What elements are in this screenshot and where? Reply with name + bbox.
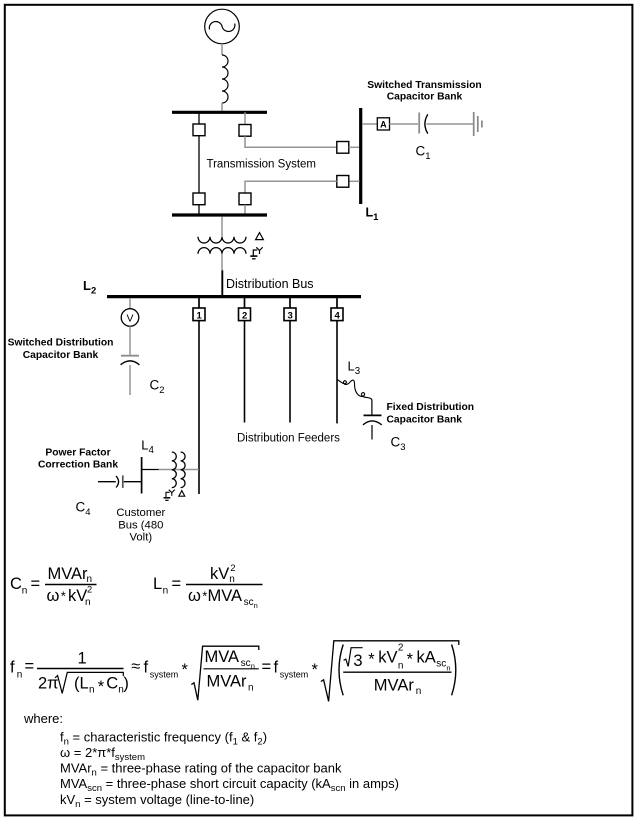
svg-text:kA: kA [417, 649, 436, 667]
delta symbol (T2) [179, 491, 185, 497]
svg-text:L: L [153, 575, 162, 593]
capacitor C4 [116, 475, 123, 488]
feeder line 1 [198, 321, 200, 494]
delta symbol [256, 233, 264, 240]
svg-text:n: n [416, 686, 422, 697]
label Switched Transmission Capacitor Bank [367, 80, 481, 102]
svg-text:n: n [85, 597, 91, 608]
svg-text:Switched Distribution: Switched Distribution [8, 337, 114, 348]
svg-text:*: * [312, 661, 319, 679]
svg-text:Capacitor Bank: Capacitor Bank [387, 91, 463, 102]
wye symbol with ground [250, 247, 262, 258]
wire C1 to ground [427, 123, 474, 125]
transmission bus (top) [172, 111, 267, 114]
svg-text:*: * [407, 651, 414, 669]
wire right bottom stub [244, 205, 246, 215]
svg-text:C: C [10, 575, 22, 593]
wire through transformer T2 to feeder 1 [159, 469, 199, 471]
feeder breaker 2 [239, 298, 251, 321]
wire inductor to transmission bus [221, 103, 223, 111]
svg-text:1: 1 [197, 310, 203, 321]
ground (rotated) [474, 112, 482, 136]
breaker (left top) [193, 124, 205, 136]
svg-text:n: n [17, 670, 23, 681]
svg-text:n: n [398, 660, 404, 671]
svg-text:2: 2 [87, 585, 92, 595]
svg-text:*: * [368, 651, 375, 669]
svg-text:*: * [182, 661, 189, 679]
svg-text:sc: sc [244, 597, 254, 608]
wire V to capacitor C2 [129, 326, 131, 354]
svg-text:MVA: MVA [208, 587, 243, 605]
breaker (L1 upper) [337, 142, 349, 154]
svg-text:MVAr: MVAr [207, 672, 248, 690]
svg-text:n: n [89, 685, 95, 696]
breaker (left bottom) [193, 193, 205, 205]
svg-text:C: C [106, 675, 118, 693]
svg-text:n: n [163, 586, 169, 597]
wye symbol with ground (T2) [164, 490, 175, 501]
breaker (right bottom) [239, 193, 251, 205]
svg-text:Transmission System: Transmission System [207, 159, 317, 171]
svg-text:=: = [262, 658, 272, 676]
transformer T2 secondary winding [181, 452, 186, 488]
label Power Factor Correction Bank [38, 448, 118, 471]
wire riser to distribution bus [221, 270, 223, 295]
svg-text:A: A [380, 119, 387, 129]
inductor (generator source impedance) [222, 55, 228, 103]
wire L4 to transformer T2 [142, 469, 159, 471]
wire to L1 upper [245, 136, 337, 147]
svg-text:kV: kV [378, 649, 397, 667]
svg-text:Correction Bank: Correction Bank [38, 459, 118, 470]
svg-text:ω: ω [188, 587, 201, 605]
svg-text:Customer: Customer [116, 507, 165, 519]
wire L3 to C3 [371, 400, 373, 415]
wire L1 to A box [362, 123, 377, 125]
svg-text:n: n [251, 661, 255, 670]
feeder line 4 [336, 321, 338, 424]
wire bus to switch V [129, 298, 131, 309]
wire L1 lower to right bottom breaker [245, 181, 337, 193]
svg-text:(L: (L [74, 675, 89, 693]
svg-text:Bus (480: Bus (480 [118, 519, 163, 531]
feeder line 2 [244, 321, 246, 423]
capacitor C3 [363, 415, 382, 425]
equation Cn [10, 565, 97, 608]
svg-text:L1: L1 [366, 206, 380, 224]
distribution bus [107, 295, 361, 298]
svg-text:2: 2 [398, 643, 404, 654]
svg-text:4: 4 [335, 310, 341, 321]
equation fn [10, 641, 459, 702]
svg-text:2: 2 [230, 563, 235, 573]
breaker (L1 lower) [337, 176, 349, 188]
svg-text:3: 3 [353, 652, 362, 670]
wire left transmission tie [198, 112, 200, 215]
svg-text:): ) [123, 675, 128, 693]
svg-text:system: system [150, 670, 179, 680]
wire to capacitor C4 [98, 481, 116, 483]
svg-text:system: system [280, 670, 309, 680]
wire transformer to distribution bus [221, 254, 223, 270]
svg-text:Distribution Feeders: Distribution Feeders [237, 433, 340, 445]
svg-text:*: * [98, 678, 105, 696]
svg-text:Volt): Volt) [129, 532, 152, 544]
transmission bus (bottom) [172, 213, 267, 216]
wire bus to transformer [221, 217, 223, 237]
wire L1 lower [349, 180, 360, 182]
label Switched Distribution Capacitor Bank [8, 337, 114, 361]
svg-text:sc: sc [241, 658, 251, 669]
capacitor C1 [419, 113, 428, 134]
svg-text:*: * [61, 589, 66, 604]
svg-text:n: n [248, 682, 254, 693]
feeder breaker 1 [193, 298, 205, 321]
svg-text:ω: ω [47, 587, 60, 605]
where block [23, 711, 399, 810]
svg-text:MVAr: MVAr [374, 676, 415, 694]
capacitor C2 [121, 356, 140, 365]
wire C4 to bus L4 [124, 481, 142, 483]
svg-text:Switched Transmission: Switched Transmission [367, 80, 481, 91]
svg-text:MVAr: MVAr [48, 565, 89, 583]
svg-text:≈: ≈ [131, 658, 140, 676]
svg-text:MVA: MVA [205, 648, 240, 666]
feeder breaker 3 [284, 298, 296, 321]
svg-text:f: f [10, 659, 15, 677]
wire C3 tail [371, 425, 373, 440]
transformer T2 primary winding [172, 452, 177, 488]
svg-text:Distribution Bus: Distribution Bus [226, 277, 314, 291]
svg-text:3: 3 [288, 310, 293, 321]
bus L1 [359, 108, 362, 204]
svg-text:2: 2 [242, 310, 247, 321]
svg-text:n: n [446, 663, 450, 672]
svg-text:f: f [274, 659, 279, 677]
label Customer Bus [116, 507, 165, 544]
svg-text:V: V [126, 313, 133, 325]
inductor L3 [337, 380, 372, 401]
svg-text:Fixed Distribution: Fixed Distribution [387, 402, 475, 413]
feeder breaker 4 [331, 298, 343, 321]
svg-text:C1: C1 [416, 144, 431, 163]
svg-text:L2: L2 [83, 278, 96, 297]
svg-text:C3: C3 [391, 435, 406, 454]
bus L4 [141, 457, 143, 494]
wire right top stub [244, 112, 246, 124]
label Fixed Distribution Capacitor Bank [387, 402, 475, 426]
svg-text:L4: L4 [141, 438, 154, 457]
svg-text:where:: where: [23, 711, 63, 726]
svg-text:C2: C2 [150, 378, 165, 397]
breaker (right top) [239, 125, 251, 137]
svg-text:n: n [87, 574, 93, 585]
wire generator to inductor [221, 44, 223, 55]
wire A box to capacitor C1 [390, 123, 419, 125]
svg-text:=: = [25, 658, 35, 676]
feeder line 3 [289, 321, 291, 423]
svg-text:f: f [144, 659, 149, 677]
svg-text:kVn = system voltage (line-to-: kVn = system voltage (line-to-line) [60, 792, 254, 810]
svg-text:Capacitor Bank: Capacitor Bank [387, 414, 463, 425]
svg-text:n: n [229, 574, 235, 585]
transformer T1 primary winding [198, 237, 246, 243]
wire C2 tail [129, 365, 131, 395]
svg-text:Power Factor: Power Factor [45, 448, 110, 459]
svg-text:=: = [172, 575, 182, 593]
svg-text:Capacitor Bank: Capacitor Bank [23, 350, 99, 361]
svg-text:1: 1 [78, 649, 87, 667]
svg-text:L3: L3 [348, 358, 361, 377]
switch V [121, 309, 139, 327]
svg-text:sc: sc [436, 659, 446, 670]
svg-text:n: n [254, 601, 258, 610]
svg-text:C4: C4 [76, 500, 91, 519]
transformer T1 secondary winding [198, 248, 246, 254]
svg-text:kV: kV [210, 565, 229, 583]
wire breaker to L1 bus [349, 146, 360, 148]
svg-text:=: = [31, 575, 41, 593]
equation Ln [153, 563, 263, 610]
switch box A [377, 118, 389, 130]
generator G1 [205, 9, 240, 44]
svg-text:n: n [22, 586, 28, 597]
